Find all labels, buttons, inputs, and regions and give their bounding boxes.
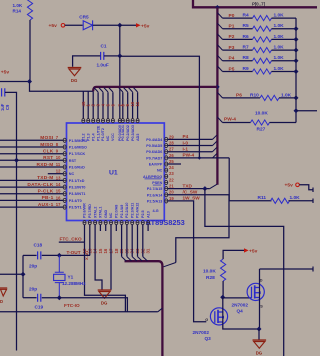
svg-text:15: 15 — [56, 189, 61, 194]
svg-text:16: 16 — [56, 195, 61, 200]
svg-text:RST: RST — [43, 155, 53, 161]
svg-text:NC: NC — [157, 169, 163, 173]
junction collector R8 — [294, 58, 299, 63]
svg-text:10: 10 — [56, 155, 61, 160]
svg-text:10.0K: 10.0K — [255, 110, 268, 116]
junction T-OUT — [57, 253, 62, 258]
junction Q3 drain node — [220, 295, 225, 300]
svg-text:D: D — [0, 299, 3, 304]
wire FTC_CKO net — [84, 231, 86, 242]
svg-text:P0.3/AD3: P0.3/AD3 — [131, 125, 135, 141]
svg-text:P1.7/SCK: P1.7/SCK — [69, 152, 86, 156]
svg-text:VCC: VCC — [111, 133, 115, 141]
svg-text:P2.4/A12: P2.4/A12 — [136, 203, 140, 218]
svg-text:10.0K: 10.0K — [203, 268, 216, 274]
svg-text:11: 11 — [56, 162, 61, 167]
ground DG (Q3/Q4) — [253, 340, 267, 348]
svg-text:29: 29 — [169, 134, 174, 139]
svg-text:+5v: +5v — [49, 23, 58, 29]
svg-text:P3.3/INT1: P3.3/INT1 — [69, 192, 86, 196]
svg-text:GND: GND — [104, 209, 108, 218]
svg-text:Y1: Y1 — [68, 275, 74, 280]
transistor Q3 2N7002 — [210, 308, 227, 325]
junction collector R7 — [294, 48, 299, 53]
wire bottom pin to bus entry — [142, 231, 144, 257]
capacitor C9 (left edge) — [2, 88, 5, 96]
svg-text:1.0K: 1.0K — [274, 55, 285, 61]
junction bus mid — [215, 85, 220, 90]
svg-text:P3.5/T1: P3.5/T1 — [69, 206, 82, 210]
bus entry P4 — [217, 55, 222, 61]
junction RST/vertical — [14, 158, 19, 163]
svg-text:P1.6/MISO: P1.6/MISO — [69, 146, 87, 150]
svg-text:22: 22 — [169, 177, 174, 182]
svg-text:1.0K: 1.0K — [274, 34, 285, 40]
svg-text:1.0K: 1.0K — [274, 13, 285, 19]
resistor R10 1.0K — [223, 97, 261, 99]
wire /C_SW row to bus — [168, 195, 229, 263]
svg-text:C9: C9 — [5, 104, 10, 110]
svg-text:P3.2/INT0: P3.2/INT0 — [69, 186, 86, 190]
svg-text:T-OUT: T-OUT — [67, 250, 81, 255]
pin bottom 12 — [141, 221, 144, 225]
svg-text:26: 26 — [169, 153, 174, 158]
svg-text:Q4: Q4 — [237, 309, 244, 314]
wire/pin 7 left (P1.5/MOSI) — [0, 139, 63, 141]
svg-text:C18: C18 — [34, 243, 43, 248]
bus entry P1 — [217, 23, 222, 29]
svg-text:PB-1: PB-1 — [42, 195, 54, 201]
bus top horizontal — [193, 0, 317, 7]
bus entry P3 — [217, 45, 222, 51]
wire XTAL2 pin down — [89, 231, 91, 255]
resistor R14 — [27, 0, 32, 20]
pin 25 right (EA/VPP) — [165, 162, 168, 166]
power +5v (R28) — [244, 248, 249, 252]
svg-text:1.0K: 1.0K — [274, 23, 285, 29]
svg-text:DATA-CLK: DATA-CLK — [27, 182, 53, 188]
svg-text:RXD-M: RXD-M — [37, 162, 54, 168]
resistor R8 1.0K — [223, 60, 253, 62]
svg-text:P0.4/AD4: P0.4/AD4 — [146, 138, 163, 142]
svg-text:P3.1/TxD: P3.1/TxD — [69, 179, 85, 183]
wire bottom pin to bus entry — [131, 231, 133, 257]
resistor R28 10.0K — [221, 259, 226, 281]
svg-text:R8: R8 — [243, 55, 249, 61]
svg-text:18: 18 — [114, 248, 119, 253]
transistor Q4 2N7002 — [247, 283, 264, 300]
svg-text:2N7002: 2N7002 — [232, 303, 249, 308]
svg-text:I-1: I-1 — [183, 147, 189, 152]
wire/pin 12 left (NC) — [48, 173, 63, 175]
svg-text:XTAL2: XTAL2 — [93, 207, 97, 218]
pin top 4 — [94, 88, 98, 92]
pin top 8 — [118, 119, 121, 123]
bus entry P5 — [217, 66, 222, 72]
svg-text:1.0K: 1.0K — [274, 66, 285, 72]
svg-text:14: 14 — [56, 182, 61, 187]
svg-text:MOSI: MOSI — [40, 135, 54, 141]
bus entry bottom rail — [158, 308, 163, 312]
svg-text:ALE/PROG: ALE/PROG — [143, 175, 162, 179]
svg-text:R5: R5 — [243, 23, 249, 29]
svg-text:P2.6/A14: P2.6/A14 — [147, 193, 163, 197]
svg-text:TXD: TXD — [183, 183, 193, 188]
wire diode to junction — [93, 24, 120, 26]
capacitor C19 20p — [23, 297, 37, 299]
wire to ground — [258, 329, 260, 340]
junction collector R10 — [294, 95, 299, 100]
svg-text:1.0K: 1.0K — [13, 3, 23, 8]
wire R14 bottom to +5v junction — [29, 20, 31, 82]
resistor R11 1.0K — [229, 200, 271, 202]
svg-text:EA/VPP: EA/VPP — [149, 163, 163, 167]
pin bottom 9 — [125, 221, 128, 225]
junction FTC-IO — [57, 295, 62, 300]
wire FTC_CKO long drop — [85, 242, 126, 312]
svg-text:+5v: +5v — [285, 183, 294, 189]
svg-text:15: 15 — [98, 248, 103, 253]
pin top 12 — [134, 88, 138, 92]
junction collector R6 — [294, 37, 299, 42]
resistor R7 1.0K — [223, 49, 253, 51]
resistor R6 1.0K — [223, 38, 253, 40]
svg-text:P0.7/AD7: P0.7/AD7 — [146, 156, 162, 160]
wire FTC-IO row — [59, 298, 127, 312]
svg-text:P1.3: P1.3 — [86, 133, 90, 141]
op-amp U1 AT89S8253 (MCU body) — [67, 123, 165, 221]
svg-text:TXD-M: TXD-M — [37, 175, 53, 181]
ground DG (crystal area) — [98, 290, 112, 298]
wire Q3 drain — [222, 297, 224, 308]
pin 19 right (P2.5/A13) — [165, 199, 168, 203]
wire T-OUT to XTAL2 — [59, 254, 90, 256]
bus entry P6 — [217, 92, 222, 98]
wire +5v rail to VCC pins — [30, 82, 94, 92]
wire right pin to bus entry — [168, 138, 213, 140]
junction collector R5 — [294, 26, 299, 31]
svg-text:P2.7/A15: P2.7/A15 — [147, 187, 162, 191]
pin bottom 4 — [99, 221, 102, 225]
svg-text:20: 20 — [169, 190, 174, 195]
svg-text:P1.1/T2E: P1.1/T2E — [96, 125, 100, 141]
svg-text:/C_SW: /C_SW — [183, 190, 198, 195]
svg-text:R11: R11 — [258, 195, 267, 201]
wire right pin to bus entry — [168, 151, 213, 153]
svg-text:NC: NC — [106, 135, 110, 141]
wire +5v to diode CR5 — [65, 24, 83, 26]
wire Q4 source to junction — [259, 301, 261, 330]
resistor R4 1.0K — [223, 17, 253, 19]
svg-text:1.0K: 1.0K — [290, 195, 301, 201]
svg-text:C1: C1 — [101, 44, 107, 49]
pin top 1 — [82, 119, 85, 123]
pin 21 right (P2.7/A15) — [165, 187, 168, 191]
bus horizontal above IC — [96, 86, 217, 88]
wire diode node down to C1 — [119, 25, 121, 56]
pin 26 right (P0.7/AD7) — [165, 156, 168, 160]
junction +5v/R14 — [27, 79, 32, 84]
svg-text:R27: R27 — [257, 127, 266, 133]
svg-text:P4: P4 — [183, 134, 189, 139]
svg-text:U1: U1 — [109, 170, 118, 177]
wire node to Q4 gate — [223, 297, 251, 299]
pin bottom 13 — [147, 221, 150, 225]
svg-text:28: 28 — [169, 140, 174, 145]
wire bottom long rail to bus — [0, 311, 158, 313]
resistor R9 1.0K — [223, 71, 253, 73]
wire drain feed right — [260, 268, 314, 270]
wire crystal left column — [22, 255, 24, 297]
pin bottom 11 — [136, 221, 139, 225]
svg-text:23: 23 — [169, 171, 174, 176]
junction bus top — [215, 5, 220, 10]
wire Q4 drain — [259, 269, 261, 283]
svg-text:1W_SW: 1W_SW — [183, 196, 201, 201]
svg-text:P1.0/T2: P1.0/T2 — [101, 128, 105, 141]
bus entry P0 — [217, 13, 222, 19]
pin bottom 3 — [94, 221, 97, 225]
wire 1W_SW row to Q3 gate — [168, 201, 207, 322]
pin top 10 — [124, 88, 128, 92]
junction diode/C1 node — [117, 23, 122, 28]
svg-text:R7: R7 — [243, 45, 249, 51]
junction source/ground — [257, 327, 262, 332]
svg-text:31: 31 — [146, 248, 151, 253]
svg-text:P0.5/AD5: P0.5/AD5 — [146, 144, 162, 148]
svg-text:20p: 20p — [29, 286, 37, 291]
pin 23 right (ALE/PROG) — [165, 174, 168, 178]
svg-text:XTAL1: XTAL1 — [99, 207, 103, 218]
svg-text:P2.5: P2.5 — [141, 210, 145, 218]
junction collector branch — [294, 108, 299, 113]
svg-text:20p: 20p — [29, 264, 37, 269]
svg-text:R14: R14 — [13, 9, 22, 14]
svg-text:P1.4: P1.4 — [91, 132, 95, 141]
svg-text:P2.0/A8: P2.0/A8 — [115, 205, 119, 218]
wire bottom pin to bus entry — [137, 231, 139, 257]
svg-text:+5v: +5v — [249, 248, 258, 254]
wire collector vertical — [295, 18, 297, 122]
svg-text:P2.1/A9: P2.1/A9 — [120, 205, 124, 218]
svg-text:P-CLK: P-CLK — [38, 189, 54, 195]
wire EA feed up to C1 node — [120, 56, 200, 158]
junction collector R9 — [294, 69, 299, 74]
svg-text:R10: R10 — [250, 92, 259, 98]
svg-text:P1.2: P1.2 — [82, 133, 86, 141]
svg-text:+5v: +5v — [141, 23, 150, 29]
svg-text:12.288MHz: 12.288MHz — [62, 281, 86, 286]
svg-text:NC: NC — [69, 172, 75, 176]
svg-text:P2.5/A13: P2.5/A13 — [147, 199, 162, 203]
wire TXD row — [168, 188, 210, 190]
svg-text:AD3: AD3 — [136, 134, 140, 141]
svg-text:I-0: I-0 — [183, 140, 189, 145]
wire PW-4 row (EA/VPP) — [168, 157, 229, 159]
wire GND pin to ground — [95, 231, 102, 290]
pin bottom 1 — [83, 221, 86, 225]
svg-text:R6: R6 — [243, 34, 249, 40]
wire collector branch to edge — [296, 110, 317, 112]
pin bottom 5 — [104, 221, 107, 225]
junction C1 node — [117, 53, 122, 58]
diode CR5 — [83, 20, 92, 30]
svg-text:FTC-IO: FTC-IO — [64, 303, 80, 308]
bus bottom horizontal — [125, 261, 163, 356]
svg-text:RST: RST — [69, 159, 77, 163]
wire C1 node down to IC pin — [119, 56, 121, 119]
wire/pin 8 left (P1.6/MISO) — [0, 146, 63, 148]
svg-text:P[0..7]: P[0..7] — [252, 2, 265, 7]
pin 20 right (P2.6/A14) — [165, 193, 168, 197]
capacitor C1 — [101, 52, 104, 60]
svg-text:27: 27 — [169, 147, 174, 152]
wire/pin 11 left (P3.0/RxD) — [0, 166, 63, 168]
bus entry P2 — [217, 34, 222, 40]
svg-text:P0.1/AD1: P0.1/AD1 — [121, 125, 125, 141]
wire C1 left to ground — [73, 56, 101, 67]
pin top 2 — [87, 119, 90, 123]
svg-text:G: G — [205, 318, 208, 322]
svg-text:NC: NC — [109, 212, 113, 218]
svg-text:P3.0/RxD: P3.0/RxD — [69, 166, 85, 170]
bus entry TXD — [210, 184, 217, 188]
svg-text:PSEN: PSEN — [152, 181, 162, 185]
junction PW-4/EA feed — [198, 156, 202, 160]
svg-text:MISO: MISO — [40, 142, 53, 148]
junction crystal left — [21, 272, 26, 277]
capacitor C18 20p — [23, 254, 37, 256]
pin top 11 — [129, 88, 133, 92]
svg-text:DG: DG — [71, 78, 78, 83]
pin top 3 — [92, 119, 95, 123]
pin 24 right (NC) — [165, 168, 168, 172]
svg-text:P0.2/AD2: P0.2/AD2 — [126, 125, 130, 141]
pin bottom 2 — [88, 221, 91, 225]
pin top 7 — [109, 88, 113, 92]
svg-text:A13: A13 — [146, 211, 150, 218]
wire right pin short stub — [168, 163, 181, 165]
svg-text:21: 21 — [169, 184, 174, 189]
wire bottom pin to bus entry — [126, 231, 128, 257]
pin bottom 7 — [115, 221, 118, 225]
svg-text:25: 25 — [169, 159, 174, 164]
wire/pin 17 left (P3.5/T1) — [0, 206, 63, 208]
svg-text:13: 13 — [56, 175, 61, 180]
wire bottom pin to bus entry — [121, 231, 123, 257]
wire +5v to edge — [299, 185, 313, 190]
svg-text:Q3: Q3 — [205, 336, 212, 341]
wire PW-4 to R11 vertical — [228, 158, 230, 201]
junction TXD node — [202, 186, 207, 191]
svg-text:FTC_CKO: FTC_CKO — [60, 237, 82, 242]
svg-text:AUX-1: AUX-1 — [38, 202, 54, 208]
svg-text:P0.6/AD6: P0.6/AD6 — [146, 150, 162, 154]
svg-text:11: 11 — [135, 101, 140, 106]
wire C1 right to node — [104, 55, 120, 57]
crystal Y1 12.288MHz — [58, 255, 60, 272]
ground (left edge partial) — [0, 288, 7, 296]
wire TXD down to transistor area — [205, 189, 284, 356]
resistor R5 1.0K — [223, 28, 253, 30]
resistor R27 10.0K — [223, 122, 251, 124]
bus entry /C_SW — [164, 263, 176, 267]
pin bottom 10 — [131, 221, 134, 225]
ground DG (C1) — [68, 68, 82, 76]
wire/pin 10 left (RST) — [0, 159, 63, 161]
pin 22 right (PSEN) — [165, 180, 168, 184]
svg-text:1.0K: 1.0K — [274, 45, 285, 51]
svg-text:R9: R9 — [243, 66, 249, 72]
wire +5v rail to junction — [0, 81, 30, 83]
svg-text:4-G: 4-G — [153, 209, 159, 213]
svg-text:1.0K: 1.0K — [281, 92, 292, 98]
wire +5v to R28 — [223, 250, 244, 251]
pin bottom 8 — [120, 221, 123, 225]
pin top 9 — [119, 88, 123, 92]
svg-text:DG: DG — [256, 351, 263, 356]
svg-text:2N7002: 2N7002 — [193, 330, 210, 335]
svg-text:C19: C19 — [35, 305, 44, 310]
svg-text:DG: DG — [101, 301, 108, 306]
svg-text:CLK: CLK — [43, 149, 54, 155]
wire/pin 16 left (P3.4/T0) — [0, 199, 63, 201]
pin bottom 6 — [110, 221, 113, 225]
wire C9 to left vertical — [5, 92, 17, 350]
svg-text:R28: R28 — [206, 275, 215, 281]
svg-text:P2.2/A10: P2.2/A10 — [125, 203, 129, 218]
wire/pin 13 left (P3.1/TxD) — [0, 179, 63, 181]
wire/pin 9 left (P1.7/SCK) — [0, 153, 63, 155]
wire right pin to bus entry — [168, 145, 213, 147]
wire/pin 14 left (P3.2/INT0) — [0, 186, 63, 188]
svg-text:AT89S8253: AT89S8253 — [146, 218, 185, 227]
bus vertical right of IC — [216, 7, 218, 185]
power +5v (diode row right) — [136, 23, 141, 27]
svg-text:R4: R4 — [243, 13, 249, 19]
svg-text:D: D — [260, 279, 263, 283]
wire Q3 source — [223, 325, 260, 329]
wire/pin 15 left (P3.3/INT1) — [0, 193, 63, 195]
svg-text:17: 17 — [56, 202, 61, 207]
svg-text:1.0uF: 1.0uF — [97, 62, 109, 67]
svg-text:PW-4: PW-4 — [183, 153, 195, 158]
svg-text:12: 12 — [56, 169, 61, 174]
wire edge to crystal left — [0, 273, 23, 275]
svg-text:P2.3/A11: P2.3/A11 — [130, 203, 134, 218]
wire junction to +5v arrow — [120, 24, 136, 26]
svg-text:P3.7/RD: P3.7/RD — [88, 204, 92, 218]
wire GND2 pin to ground — [110, 231, 112, 290]
svg-text:PW-4: PW-4 — [224, 117, 236, 123]
pin top 6 — [104, 88, 108, 92]
pin top 5 — [99, 88, 103, 92]
svg-text:+5v: +5v — [1, 70, 10, 76]
svg-text:P3.6/WR: P3.6/WR — [83, 203, 87, 218]
wire VCC pin stubs — [82, 91, 84, 119]
pin 29 right (P0.4/AD4) — [165, 137, 168, 141]
svg-text:24: 24 — [169, 165, 174, 170]
pin 27 right (P0.6/AD6) — [165, 150, 168, 154]
svg-text:16: 16 — [103, 248, 108, 253]
svg-text:CR5: CR5 — [79, 15, 89, 20]
pin 28 right (P0.5/AD5) — [165, 143, 168, 147]
svg-text:P3.4/T0: P3.4/T0 — [69, 199, 82, 203]
bus entry PW-4 — [217, 117, 222, 123]
svg-text:19: 19 — [169, 196, 174, 201]
